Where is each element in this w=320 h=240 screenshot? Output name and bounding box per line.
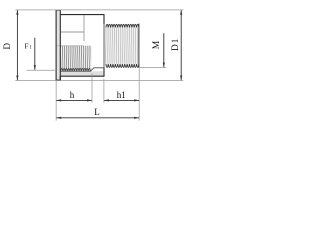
svg-text:M: M — [152, 40, 162, 49]
svg-text:D1: D1 — [170, 37, 180, 50]
svg-text:h: h — [70, 90, 75, 100]
svg-text:1: 1 — [29, 45, 32, 50]
svg-text:F: F — [25, 43, 29, 51]
svg-text:h1: h1 — [117, 90, 126, 100]
svg-text:L: L — [94, 107, 100, 117]
svg-text:D: D — [2, 42, 12, 49]
